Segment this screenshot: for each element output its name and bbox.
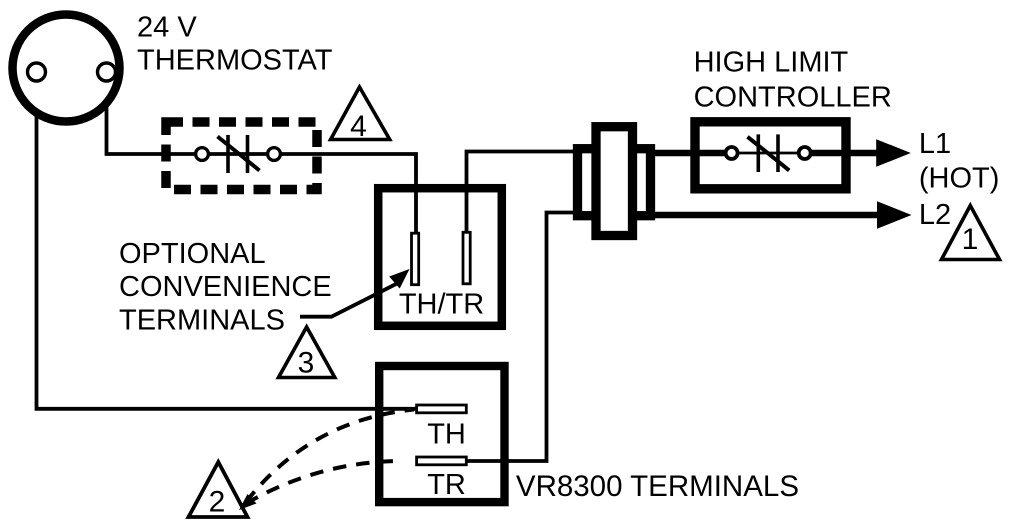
- svg-text:L1: L1: [919, 128, 951, 160]
- svg-text:4: 4: [350, 110, 367, 143]
- svg-text:THERMOSTAT: THERMOSTAT: [137, 44, 333, 76]
- svg-text:1: 1: [962, 223, 979, 256]
- svg-text:OPTIONAL: OPTIONAL: [119, 238, 266, 270]
- svg-text:TH: TH: [427, 418, 466, 450]
- svg-text:2: 2: [209, 486, 226, 519]
- svg-text:CONVENIENCE: CONVENIENCE: [119, 271, 332, 303]
- svg-text:24 V: 24 V: [137, 11, 197, 43]
- svg-text:3: 3: [298, 347, 315, 380]
- svg-text:VR8300 TERMINALS: VR8300 TERMINALS: [516, 470, 799, 503]
- svg-text:HIGH LIMIT: HIGH LIMIT: [694, 46, 849, 78]
- svg-text:TERMINALS: TERMINALS: [119, 305, 285, 337]
- svg-text:CONTROLLER: CONTROLLER: [694, 81, 892, 113]
- svg-text:TH/TR: TH/TR: [399, 289, 484, 321]
- svg-text:TR: TR: [427, 469, 466, 501]
- svg-text:L2: L2: [919, 199, 951, 231]
- svg-text:(HOT): (HOT): [919, 162, 1000, 194]
